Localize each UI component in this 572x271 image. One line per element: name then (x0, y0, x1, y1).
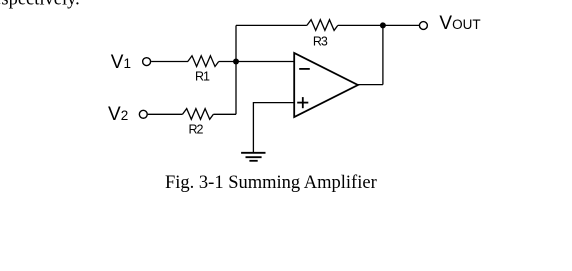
op-amp U1 (294, 53, 358, 117)
wire top feedback rail right (338, 24, 419, 26)
node output junction (380, 22, 386, 28)
svg-text:R3: R3 (313, 34, 328, 48)
terminal VOUT (419, 22, 427, 30)
svg-text:R2: R2 (189, 122, 204, 136)
svg-text:respectively.: respectively. (0, 0, 80, 10)
op-amp non-inverting input marker (297, 97, 308, 108)
svg-text:R1: R1 (195, 69, 210, 83)
wire R2 to summing node (213, 113, 236, 115)
resistor R3 (307, 20, 338, 31)
wire top feedback rail left (236, 24, 307, 26)
wire op-amp non-inverting input (253, 103, 294, 153)
wire op-amp output (358, 84, 383, 86)
wire summing node vertical (235, 25, 237, 114)
wire V1 to R1 (151, 61, 188, 63)
svg-text:V1: V1 (111, 52, 131, 73)
wire output junction down (382, 25, 384, 84)
svg-text:VOUT: VOUT (439, 13, 480, 34)
resistor R2 (183, 109, 214, 120)
terminal V2 (139, 110, 147, 118)
op-amp inverting input marker (299, 68, 310, 70)
terminal V1 (143, 58, 151, 66)
resistor R1 (188, 56, 219, 67)
wire V2 to R2 (148, 113, 183, 115)
ground (241, 153, 265, 161)
svg-text:V2: V2 (108, 104, 128, 125)
wire R1 to op-amp inverting input (219, 61, 295, 63)
node summing junction (233, 59, 239, 65)
svg-text:Fig. 3-1 Summing Amplifier: Fig. 3-1 Summing Amplifier (165, 173, 377, 193)
